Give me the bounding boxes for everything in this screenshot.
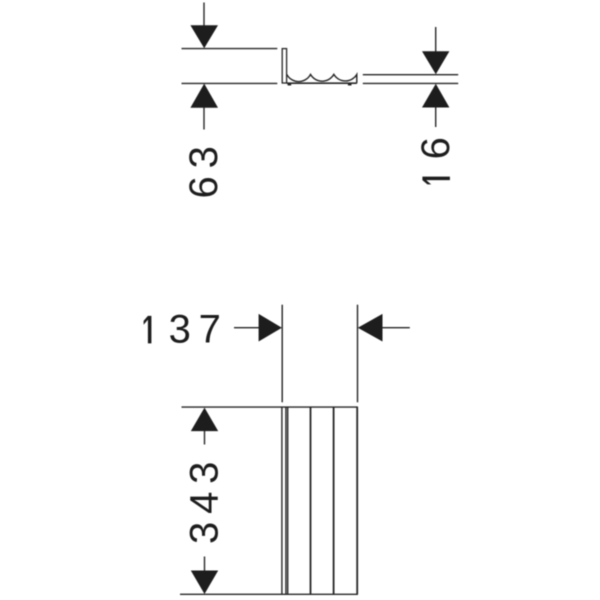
dimension line 137 right tail — [382, 327, 410, 329]
dimension arrow 63 top (down) — [190, 25, 218, 48]
dimension arrow 137 left (right-pointing) — [259, 314, 282, 342]
dimension arrow 16 bottom (up) — [422, 84, 449, 108]
svg-text:343: 343 — [183, 454, 227, 544]
dimension arrow 137 right (left-pointing) — [358, 314, 383, 342]
dimension line 137 left tail — [234, 327, 259, 329]
shelf plate bottom line — [363, 82, 458, 84]
shelf plate top line — [363, 74, 458, 76]
front view inner double line b — [287, 407, 289, 594]
tray foot right — [348, 84, 352, 86]
dimension label 137 — [144, 316, 152, 344]
dimension arrow 16 top (down) — [422, 51, 449, 74]
dimension line 63 upper segment — [203, 3, 205, 26]
front view inner double line a — [285, 407, 287, 594]
front view right edge — [356, 407, 358, 594]
front view rib line 1 — [310, 407, 312, 594]
front view bottom edge — [180, 593, 358, 595]
extension line 137 right — [357, 305, 359, 403]
extension line 63 top — [182, 48, 278, 50]
tray scalloped profile — [287, 74, 357, 83]
tray base line — [287, 82, 357, 84]
dimension line 16 lower segment — [435, 107, 437, 127]
svg-text:63: 63 — [182, 138, 226, 198]
dimension line 343 lower stub — [204, 557, 206, 571]
tray foot left — [288, 84, 292, 86]
front view rib line 2 — [333, 407, 335, 594]
dimension line 343 upper stub — [204, 431, 206, 445]
dimension line 63 lower segment — [203, 108, 205, 130]
dimension line 16 upper segment — [435, 27, 437, 52]
svg-text:37: 37 — [169, 308, 229, 352]
front view top edge — [182, 406, 358, 408]
front view left edge — [281, 407, 283, 594]
dimension arrow 343 top (up) — [191, 408, 218, 432]
extension line 137 left — [281, 305, 283, 403]
dimension arrow 63 bottom (up) — [190, 84, 218, 108]
wall profile (side view vertical plate) — [282, 49, 286, 83]
svg-text:6: 6 — [414, 129, 458, 159]
dimension arrow 343 bottom (down) — [191, 571, 218, 595]
extension line 63 bottom — [182, 82, 278, 84]
dimension label 16 — [414, 129, 458, 184]
